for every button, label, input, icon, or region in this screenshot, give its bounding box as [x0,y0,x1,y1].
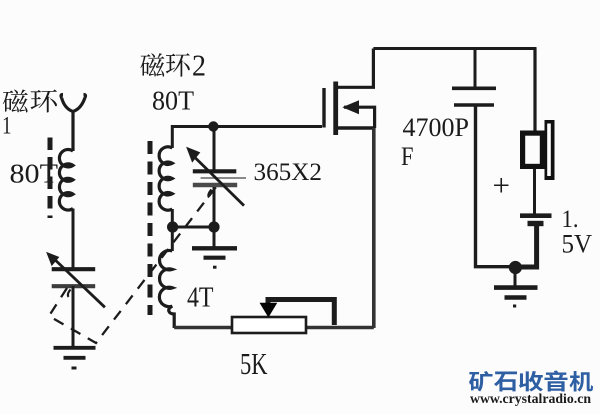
core of T2 (dashed bar) [148,141,153,315]
T2 secondary 4T coil [159,251,174,329]
svg-text:1: 1 [2,113,12,140]
svg-text:5V: 5V [562,228,593,258]
wire coil top to gate [172,127,322,149]
wire C1 to ground [72,286,75,348]
variable capacitor C1 plates [52,269,95,286]
bottom rail [174,326,374,330]
capacitor C3 stem top [474,49,477,88]
thick wire J4 to battery [519,225,537,267]
svg-text:4T: 4T [187,283,214,314]
variable capacitor C2 365X2 stem top [213,127,216,170]
Q1 bulk lead with arrow [344,101,375,128]
node J1 [208,121,218,131]
5K wiper arm [260,300,334,326]
T2 primary 80T coil [159,147,172,210]
ground G1 [54,348,96,368]
label 4700P F [401,112,469,171]
node J3 [208,221,219,232]
small pen mark under C1 [68,290,71,298]
label 磁环2 [140,48,206,83]
svg-text:4700P: 4700P [403,112,470,142]
svg-text:80T: 80T [152,86,194,116]
node J2 [167,221,178,232]
battery B1 1.5V [520,216,552,224]
svg-text:2: 2 [192,48,206,83]
svg-text:365X2: 365X2 [254,157,323,186]
gang dashed link C1-C2 [49,187,216,343]
wire 80T bottom through J2 to 4T [171,209,174,251]
Q1 drain lead [337,49,373,88]
svg-text:www.crystalradio.cn: www.crystalradio.cn [470,391,592,406]
wire top rail down to speaker [533,49,536,132]
label 磁环 1 [2,90,57,140]
C3 plates [452,88,496,105]
svg-text:F: F [401,141,414,171]
small pen mark under C2 [208,190,211,198]
wire J2 to J3 [172,226,214,229]
C3 stem bottom [476,106,511,267]
top rail [373,49,535,61]
C2 arrow [187,148,244,206]
label 1. 5V [562,204,593,259]
C2 plates [193,171,246,185]
ground G3 [494,272,538,306]
antenna [61,95,86,152]
svg-text:5K: 5K [240,346,268,381]
inductor L1 80T coil [59,149,73,210]
wire source down right side [372,128,376,328]
potentiometer 5K body [232,317,306,333]
Q1 source lead [338,126,375,129]
wire battery to speaker [533,169,536,214]
ground G2 [192,227,237,267]
C2 stem bottom [213,187,216,227]
C1 arrow [47,253,105,308]
transistor Q1 gate bar [322,88,325,128]
Q1 channel bar [333,82,338,136]
svg-text:+: + [493,168,510,203]
wire L1 to C1 [72,209,75,269]
node J4 [509,261,522,274]
core of L1 (dashed bar) [48,138,53,219]
watermark 矿石收音机 [469,370,593,391]
speaker / earphone [520,120,555,180]
